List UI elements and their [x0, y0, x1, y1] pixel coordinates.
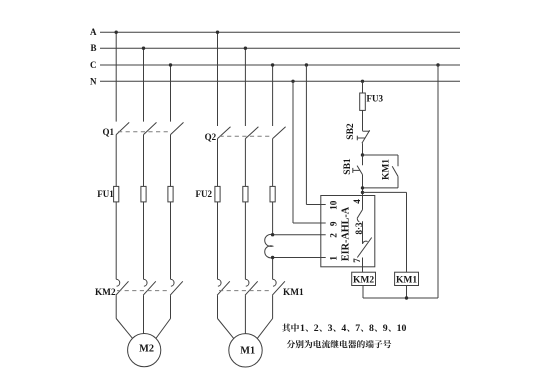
svg-text:8·3: 8·3 — [354, 222, 364, 235]
svg-text:SB1: SB1 — [343, 158, 353, 175]
svg-text:7: 7 — [355, 323, 360, 334]
svg-text:9: 9 — [383, 323, 388, 334]
svg-text:4: 4 — [352, 199, 362, 204]
svg-text:9: 9 — [328, 221, 338, 226]
svg-text:EIR-AHL-A: EIR-AHL-A — [340, 206, 351, 261]
svg-text:FU1: FU1 — [97, 189, 114, 199]
svg-text:KM1: KM1 — [283, 288, 304, 298]
svg-text:SB2: SB2 — [346, 123, 356, 140]
svg-text:KM1: KM1 — [396, 275, 417, 285]
svg-text:B: B — [90, 43, 96, 53]
svg-text:M2: M2 — [139, 344, 154, 355]
svg-text:FU2: FU2 — [196, 189, 213, 199]
svg-text:Q1: Q1 — [102, 127, 114, 137]
svg-text:M1: M1 — [240, 345, 255, 356]
svg-text:8: 8 — [369, 323, 374, 334]
svg-text:N: N — [90, 76, 97, 86]
svg-text:3: 3 — [328, 323, 333, 334]
svg-text:10: 10 — [328, 200, 338, 210]
svg-text:FU3: FU3 — [367, 94, 384, 104]
svg-text:KM2: KM2 — [95, 288, 116, 298]
svg-text:4: 4 — [341, 323, 346, 334]
svg-text:1: 1 — [328, 256, 338, 261]
svg-text:2: 2 — [328, 233, 338, 238]
svg-text:KM2: KM2 — [353, 275, 374, 285]
svg-text:A: A — [90, 27, 97, 37]
svg-text:10: 10 — [397, 323, 407, 334]
svg-text:1: 1 — [300, 323, 305, 334]
svg-text:C: C — [90, 60, 97, 70]
svg-text:KM1: KM1 — [382, 159, 392, 180]
svg-text:7: 7 — [352, 258, 362, 263]
svg-text:2: 2 — [314, 323, 319, 334]
svg-text:Q2: Q2 — [205, 132, 217, 142]
